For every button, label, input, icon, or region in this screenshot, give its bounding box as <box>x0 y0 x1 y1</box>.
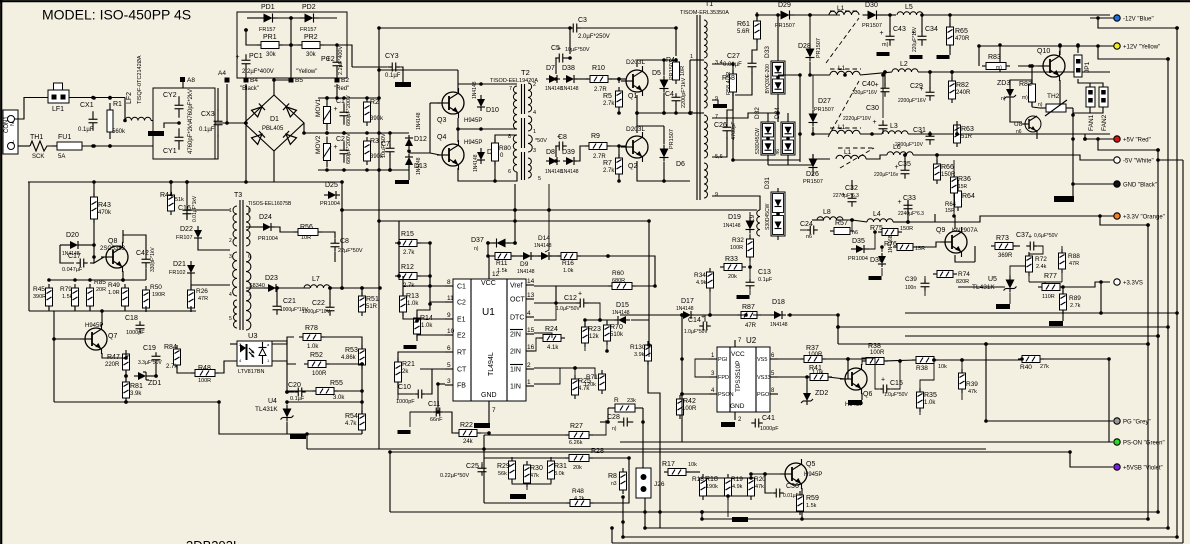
svg-text:100R: 100R <box>808 352 823 358</box>
resistor R82 <box>1019 80 1036 106</box>
wire C14 up <box>704 315 706 322</box>
label C43 value <box>882 42 889 48</box>
wire R73 out <box>1013 245 1020 247</box>
label C16 rot <box>192 195 198 222</box>
svg-text:U4: U4 <box>268 398 277 405</box>
wire C3 right rail <box>579 28 676 56</box>
resistor R18 <box>700 474 718 500</box>
junction <box>808 13 812 17</box>
resistor R40 <box>0 0 1044 363</box>
junction <box>606 254 610 258</box>
junction <box>658 510 662 514</box>
svg-text:11: 11 <box>447 295 454 302</box>
resistor R58 <box>722 70 737 96</box>
wire v1148 <box>1147 225 1149 519</box>
svg-text:R82: R82 <box>956 82 969 89</box>
svg-text:1.0k: 1.0k <box>307 344 319 350</box>
wire R39 top <box>961 360 963 373</box>
wire R32-R33 <box>749 257 751 278</box>
svg-text:3.0k: 3.0k <box>333 395 345 401</box>
svg-text:+: + <box>881 377 885 384</box>
wire U3 left top <box>230 343 237 345</box>
label C34 rot <box>912 26 918 52</box>
wire D33 bot <box>777 98 779 122</box>
wire B5 up <box>290 45 292 78</box>
wire L8-L4 <box>837 220 867 222</box>
resistor R66 <box>934 160 957 184</box>
junction <box>92 180 96 184</box>
svg-text:+5V "Red": +5V "Red" <box>1123 138 1151 144</box>
label D37 value <box>474 246 479 252</box>
label R82b value <box>1022 95 1028 101</box>
svg-text:680R: 680R <box>612 278 625 284</box>
wire R7 bot <box>618 174 620 181</box>
resistor R27 <box>565 423 593 439</box>
label D17 value <box>676 306 694 312</box>
label D8 value <box>545 169 563 175</box>
svg-text:PR1507: PR1507 <box>816 38 822 58</box>
wire net y315b <box>694 314 745 316</box>
resistor R11 <box>0 0 515 260</box>
svg-text:R42: R42 <box>683 398 696 405</box>
svg-text:L2: L2 <box>900 61 908 68</box>
svg-text:4: 4 <box>527 310 531 317</box>
wire U3 right top <box>272 337 294 344</box>
resistor R3 <box>364 137 385 165</box>
svg-text:C29: C29 <box>910 83 923 90</box>
wire R47-R81 <box>125 370 127 382</box>
wire R72 bot <box>1028 272 1030 282</box>
svg-text:A8: A8 <box>187 77 195 84</box>
wire R23 top <box>585 320 600 327</box>
wire PD1 row <box>247 17 259 19</box>
wire Q3 col up <box>457 84 459 92</box>
wire R13 bot <box>403 312 417 319</box>
label C13 value <box>758 277 773 283</box>
resistor R36 <box>951 173 971 197</box>
svg-text:BYQ30E-200: BYQ30E-200 <box>765 64 771 94</box>
wire T1 pin1 <box>690 59 704 61</box>
wire D13 bot <box>408 166 410 180</box>
resistor R56 <box>294 224 322 236</box>
svg-text:3: 3 <box>447 378 451 385</box>
svg-text:190k: 190k <box>706 484 718 490</box>
svg-text:E2: E2 <box>457 333 466 340</box>
wire Q2 col <box>636 126 638 133</box>
svg-text:R18: R18 <box>692 476 704 483</box>
transistor Q3 <box>437 88 464 124</box>
ground <box>713 104 727 108</box>
svg-text:L: L <box>10 140 16 143</box>
svg-text:D8: D8 <box>546 149 555 156</box>
svg-text:Q5: Q5 <box>806 461 815 468</box>
svg-text:C3: C3 <box>578 17 587 24</box>
wire PR2 out <box>320 45 337 58</box>
svg-text:2200µF*16V: 2200µF*16V <box>898 98 927 104</box>
wire C27 gnd <box>735 72 752 95</box>
svg-text:m): m) <box>882 42 889 48</box>
svg-text:51k: 51k <box>175 197 184 203</box>
svg-text:R11: R11 <box>496 260 508 267</box>
svg-text:C8: C8 <box>340 238 349 245</box>
ground <box>474 423 490 428</box>
transformer T2 <box>490 68 541 182</box>
wire r72 r88 row <box>1029 281 1062 283</box>
transformer T3 <box>229 192 292 330</box>
svg-text:+: + <box>334 106 338 113</box>
wire 12V up <box>999 45 1001 72</box>
junction <box>1096 137 1100 141</box>
wire mid tap <box>290 18 292 45</box>
connector CON1 <box>3 110 18 154</box>
resistor R20 <box>0 0 755 500</box>
label PR1 value <box>266 52 277 58</box>
label R89 <box>1069 295 1081 309</box>
wire T1 pin2 <box>690 112 704 114</box>
wire y313 <box>905 312 1177 314</box>
wire RT pin <box>412 351 445 353</box>
svg-text:3.9k: 3.9k <box>130 391 142 397</box>
transistor Q1 <box>621 66 648 100</box>
junction <box>598 318 602 322</box>
label C42 rot <box>150 247 156 272</box>
label C8b value <box>338 248 363 254</box>
svg-text:D1: D1 <box>270 116 279 123</box>
capacitor C19 <box>143 345 161 364</box>
junction <box>124 356 128 360</box>
inductor L9 <box>749 210 760 236</box>
wire U4 bot <box>286 422 288 434</box>
capacitor C11 <box>428 401 444 417</box>
svg-text:1.0k: 1.0k <box>407 301 419 307</box>
wire bridge right <box>303 123 305 133</box>
wire D36 top <box>881 247 883 252</box>
svg-text:R24: R24 <box>545 326 558 333</box>
svg-text:C24: C24 <box>800 221 813 228</box>
svg-text:100n: 100n <box>905 285 916 291</box>
svg-text:FAN1: FAN1 <box>1088 114 1095 131</box>
svg-text:E1: E1 <box>457 317 466 324</box>
svg-text:R45: R45 <box>33 286 45 293</box>
svg-text:5.6R: 5.6R <box>737 29 750 35</box>
wire U3 right bot <box>272 361 296 364</box>
wire standby feed <box>28 181 246 183</box>
ground <box>996 304 1010 309</box>
ground <box>290 434 306 439</box>
svg-text:3.3µF*50V: 3.3µF*50V <box>138 360 162 366</box>
wire fan2 bottom <box>1090 107 1103 113</box>
svg-text:C31: C31 <box>913 127 926 134</box>
svg-text:n3: n3 <box>611 481 617 487</box>
label R28 value <box>573 465 582 471</box>
svg-text:22µF*50V: 22µF*50V <box>338 248 363 254</box>
svg-text:MOV1: MOV1 <box>315 98 322 117</box>
svg-text:TISOS-EEL16075B: TISOS-EEL16075B <box>248 201 292 207</box>
junction <box>407 149 411 153</box>
svg-text:PGO: PGO <box>757 392 770 398</box>
svg-text:20R: 20R <box>96 287 106 293</box>
wire R39 bot <box>961 389 963 400</box>
junction <box>91 96 95 100</box>
junction <box>108 144 112 148</box>
diode D5 <box>652 70 669 93</box>
label Q3 type <box>464 118 482 124</box>
svg-text:0.22µF*50V: 0.22µF*50V <box>440 473 469 479</box>
wire R24 left <box>534 338 543 351</box>
diode D26 <box>806 155 819 179</box>
svg-text:15R: 15R <box>958 184 968 190</box>
svg-text:C19: C19 <box>143 345 156 352</box>
svg-text:Q1: Q1 <box>628 93 637 100</box>
wire U4 wire <box>287 401 362 403</box>
label C39 <box>905 276 917 291</box>
svg-text:R35: R35 <box>924 392 937 399</box>
svg-text:CY2: CY2 <box>163 92 177 99</box>
svg-text:R83: R83 <box>988 54 1001 61</box>
wire c19 bot <box>155 364 157 376</box>
svg-text:RT: RT <box>457 350 467 357</box>
svg-text:8: 8 <box>447 279 451 286</box>
svg-text:D21: D21 <box>173 261 186 268</box>
inductor L5 <box>897 4 923 15</box>
wire R58 rail <box>732 92 734 160</box>
label D20 value <box>62 251 80 257</box>
junction <box>388 131 392 135</box>
svg-text:Q8: Q8 <box>108 238 117 245</box>
svg-text:10µF*50V: 10µF*50V <box>381 133 387 158</box>
svg-text:1.0µF*50V: 1.0µF*50V <box>884 392 908 398</box>
wire R48 left <box>177 365 193 373</box>
label R76 value <box>915 246 925 252</box>
svg-text:+3.3VS: +3.3VS <box>1123 281 1143 287</box>
svg-text:R71: R71 <box>586 374 598 381</box>
svg-text:m): m) <box>996 65 1002 71</box>
ground <box>848 400 862 405</box>
svg-text:1N4148: 1N4148 <box>416 157 422 175</box>
svg-text:TISQF-0TC2142ØA: TISQF-0TC2142ØA <box>137 55 143 104</box>
wire PC1 down <box>245 68 247 78</box>
wire Q9 col <box>954 216 956 229</box>
junction <box>360 400 364 404</box>
wire T1 pin7 <box>712 113 778 118</box>
resistor R17 <box>662 461 690 476</box>
resistor R70 <box>604 321 625 345</box>
junction <box>377 96 381 100</box>
svg-text:R51: R51 <box>366 296 379 303</box>
wire bus y528 <box>645 527 1168 529</box>
svg-text:TL431K: TL431K <box>255 406 278 413</box>
svg-text:S30D45CW: S30D45CW <box>765 203 771 230</box>
wire R21 top <box>398 352 412 362</box>
capacitor C27 <box>727 53 757 73</box>
label C12 value <box>556 306 580 312</box>
svg-text:R55: R55 <box>330 380 343 387</box>
svg-text:680µF*200V: 680µF*200V <box>346 95 352 126</box>
wire Q6 em gnd <box>861 393 863 400</box>
resistor R76 <box>884 241 917 251</box>
wire Q7 base <box>54 338 85 340</box>
junction <box>92 243 96 247</box>
svg-text:TPS3510P: TPS3510P <box>735 361 742 392</box>
junction <box>776 111 780 115</box>
junction <box>568 26 572 30</box>
wire R34 down <box>709 288 711 315</box>
wire R35 top <box>920 360 934 392</box>
svg-text:2220µF*10V: 2220µF*10V <box>843 116 872 122</box>
svg-text:R84: R84 <box>164 344 177 351</box>
diode D20 <box>66 232 82 249</box>
label R59 value <box>806 503 817 509</box>
svg-text:+: + <box>334 144 338 151</box>
wire R40 out <box>1040 359 1109 442</box>
junction <box>836 325 840 329</box>
svg-text:ZD2: ZD2 <box>815 390 828 397</box>
junction <box>984 342 988 346</box>
wire Q9 em <box>955 255 975 262</box>
svg-text:R80: R80 <box>499 145 511 152</box>
terminal red +5V <box>1114 136 1151 144</box>
svg-text:R81: R81 <box>130 383 143 390</box>
svg-text:5: 5 <box>447 362 451 369</box>
label R83 value <box>996 65 1002 71</box>
capacitor PC2 <box>321 56 342 72</box>
diode D36 <box>870 253 886 267</box>
wire Q5 base <box>751 473 785 475</box>
wire net y315 <box>620 314 681 316</box>
wire Q6 col to C15 <box>862 358 879 389</box>
svg-text:+: + <box>873 119 877 126</box>
transistor Q2 <box>621 132 648 170</box>
wire R80 net <box>494 162 496 181</box>
wire R51 top <box>361 288 363 296</box>
wire bridge top up <box>274 80 290 95</box>
svg-text:D30: D30 <box>865 2 878 9</box>
svg-text:FPD: FPD <box>718 375 729 381</box>
svg-text:1.0µF*50V: 1.0µF*50V <box>556 306 580 312</box>
wire Q3 base <box>430 102 440 104</box>
label Q7 type <box>85 323 103 329</box>
svg-text:R30: R30 <box>530 465 543 472</box>
svg-text:110R: 110R <box>1042 294 1055 300</box>
ground <box>737 295 750 299</box>
wire C11 left <box>410 412 432 427</box>
svg-text:FR157: FR157 <box>259 27 276 33</box>
wire Q4 col <box>457 129 459 142</box>
resistor R48b <box>0 0 594 507</box>
junction <box>1146 223 1150 227</box>
svg-text:R73: R73 <box>996 235 1009 242</box>
footer part number <box>186 538 240 544</box>
wire top rail <box>318 97 379 99</box>
label R16b <box>562 260 574 274</box>
svg-text:3DB393L: 3DB393L <box>186 538 240 544</box>
label C40 value <box>852 90 878 96</box>
label Yellow <box>296 69 317 75</box>
label D14b <box>534 235 552 249</box>
svg-text:MODEL: ISO-450PP 4S: MODEL: ISO-450PP 4S <box>42 7 191 23</box>
svg-text:1N4148: 1N4148 <box>416 112 422 130</box>
junction <box>621 535 625 539</box>
wire C31 top <box>929 133 931 134</box>
svg-text:2200pF*1kV: 2200pF*1kV <box>681 77 687 108</box>
svg-text:4.7k: 4.7k <box>345 421 357 427</box>
svg-text:R74: R74 <box>958 271 970 278</box>
svg-text:1.0k: 1.0k <box>563 268 574 274</box>
svg-text:4.86k: 4.86k <box>341 355 357 361</box>
wire vert 515 <box>514 184 516 243</box>
svg-text:100R: 100R <box>870 350 885 356</box>
svg-text:R21: R21 <box>402 361 415 368</box>
svg-text:D31: D31 <box>764 177 771 189</box>
label C41 value <box>760 426 779 432</box>
wire R25 top <box>534 368 575 379</box>
svg-text:L6: L6 <box>893 144 901 151</box>
junction <box>808 73 812 77</box>
svg-text:27k: 27k <box>1040 364 1049 370</box>
junction <box>91 144 95 148</box>
label C33 value <box>898 211 924 217</box>
svg-text:6: 6 <box>447 345 451 352</box>
svg-text:C13: C13 <box>758 269 771 276</box>
svg-text:R63: R63 <box>961 126 974 133</box>
svg-text:Q3: Q3 <box>437 117 446 124</box>
capacitor C43 <box>880 26 906 46</box>
label ZD3 value <box>1001 96 1006 102</box>
label R44 value <box>175 197 184 203</box>
junction <box>124 374 128 378</box>
svg-text:C16: C16 <box>178 205 191 212</box>
label D26 value <box>803 179 823 185</box>
resistor R51 <box>359 292 379 316</box>
label Q2 type <box>626 126 646 133</box>
label D39 value <box>561 169 579 175</box>
scan border top <box>0 0 1190 2</box>
resistor R13 <box>400 292 420 316</box>
svg-text:C2: C2 <box>457 300 466 307</box>
svg-text:VS5: VS5 <box>757 357 767 363</box>
wire fan2 top <box>1090 83 1103 87</box>
wire A4 down <box>226 84 228 123</box>
wire orange tee <box>1100 216 1148 225</box>
svg-text:SCK: SCK <box>32 154 44 160</box>
capacitor CX3 <box>199 109 223 137</box>
wire E2 pin <box>417 334 445 336</box>
svg-text:D18: D18 <box>772 299 785 306</box>
svg-text:1.5k: 1.5k <box>497 268 508 274</box>
svg-text:R48: R48 <box>572 488 584 495</box>
svg-text:Q4: Q4 <box>437 134 446 141</box>
wire R89 bot <box>1062 310 1064 321</box>
svg-text:R53: R53 <box>345 347 358 354</box>
wire D19 top <box>749 212 751 216</box>
junction <box>513 208 517 212</box>
svg-text:D6: D6 <box>676 161 685 168</box>
label R71 <box>584 374 598 388</box>
resistor R75 <box>870 225 902 236</box>
svg-text:C5: C5 <box>551 45 560 52</box>
svg-text:R19: R19 <box>731 476 743 483</box>
wire bot rail <box>318 169 379 171</box>
capacitor C29 <box>910 83 935 101</box>
resistor R71 <box>0 0 606 394</box>
diode D19 <box>728 214 755 234</box>
capacitor C24 <box>800 221 818 235</box>
label C17 value <box>62 267 83 273</box>
diode D11 <box>477 148 499 164</box>
wire R15 left <box>398 242 400 244</box>
svg-text:10k: 10k <box>688 462 697 468</box>
wire row stub <box>124 306 126 311</box>
